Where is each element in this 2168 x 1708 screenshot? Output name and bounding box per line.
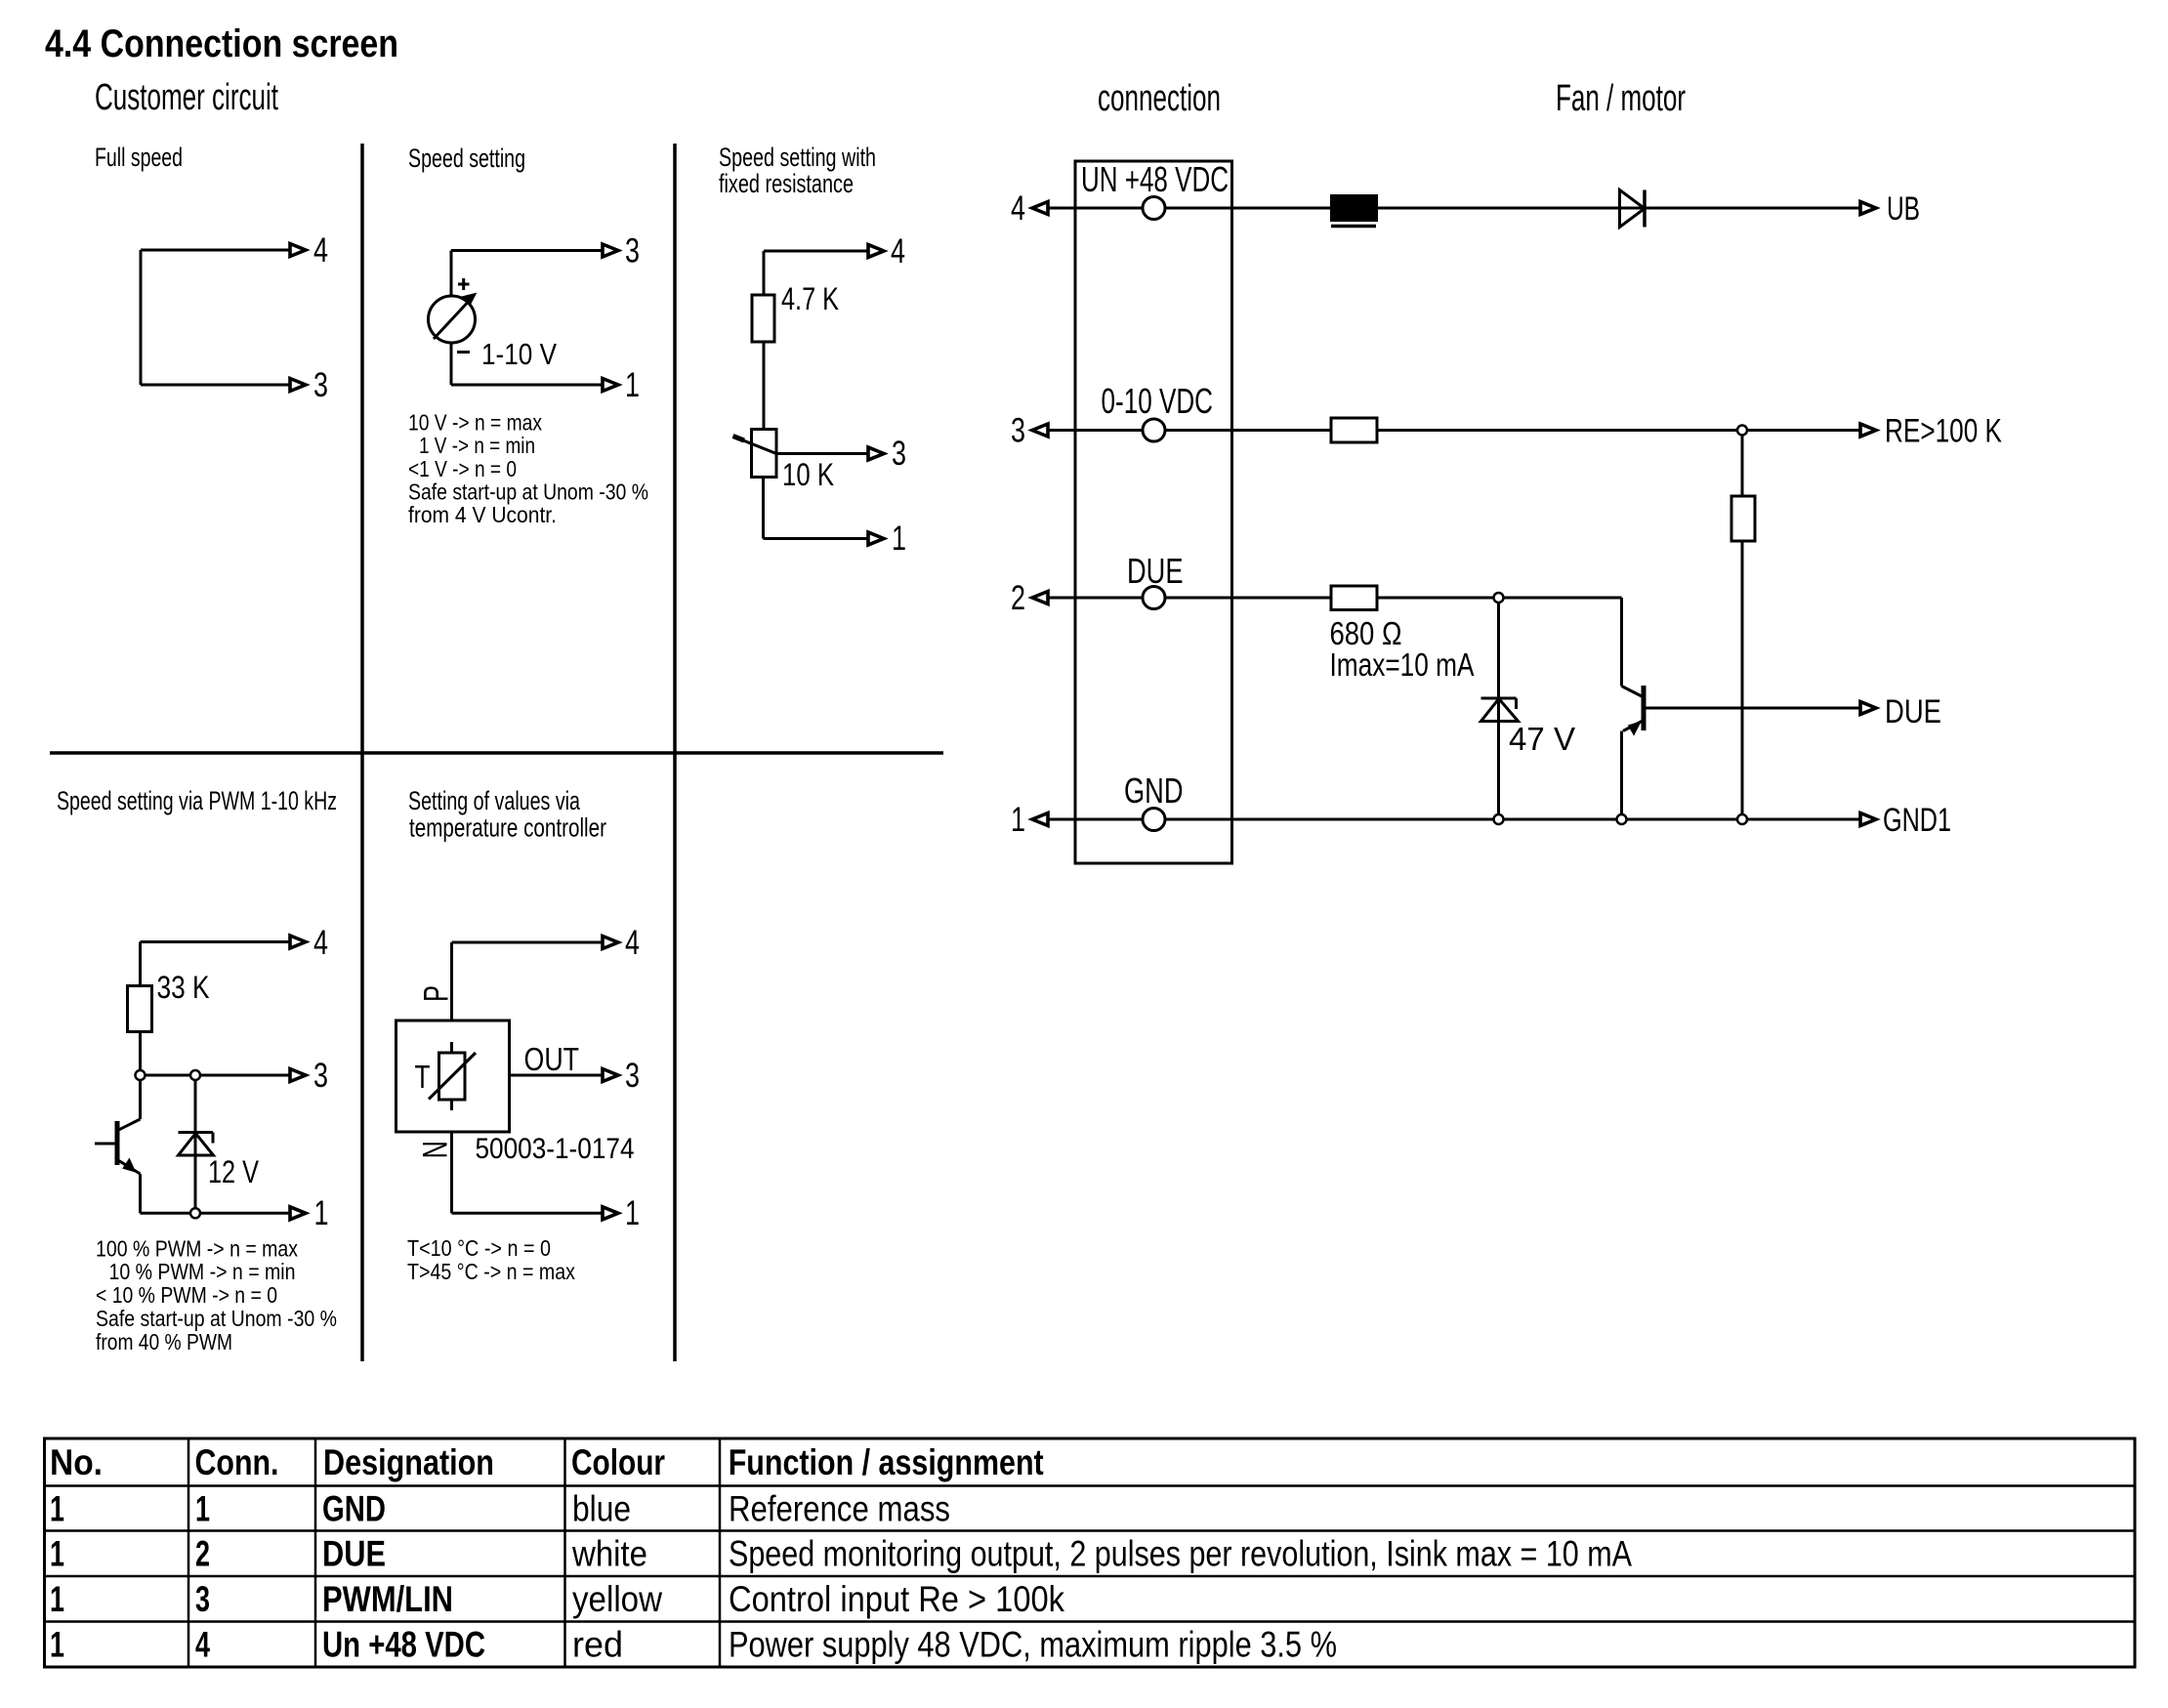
svg-text:RE>100 K: RE>100 K <box>1885 413 2002 450</box>
wire vertical into controller box <box>450 942 453 1021</box>
svg-text:fixed resistance: fixed resistance <box>719 169 854 198</box>
svg-text:red: red <box>572 1625 623 1665</box>
wire pin1 (temp) <box>452 1212 605 1215</box>
pin1 left arrow <box>1032 813 1048 826</box>
fuse / polarity protection symbol <box>1331 195 1377 221</box>
svg-text:N: N <box>417 1141 455 1158</box>
svg-text:Control input Re > 100k: Control input Re > 100k <box>729 1579 1064 1619</box>
wire vertical input-resistor branch <box>1741 431 1744 820</box>
svg-text:Imax=10 mA: Imax=10 mA <box>1330 646 1475 683</box>
transistor Q2 collector lead <box>1622 687 1643 697</box>
table frame <box>45 1438 2136 1667</box>
svg-text:4: 4 <box>313 231 328 270</box>
svg-text:Safe start-up at Unom -30 %: Safe start-up at Unom -30 % <box>96 1306 337 1331</box>
svg-text:2: 2 <box>195 1534 210 1574</box>
svg-text:4: 4 <box>625 924 640 962</box>
svg-text:1: 1 <box>50 1625 64 1665</box>
wire pin3 (speed setting) <box>451 249 604 252</box>
svg-text:No.: No. <box>50 1442 103 1482</box>
wire DUE output row <box>1646 707 1861 710</box>
resistor 4.7 K <box>752 295 774 342</box>
svg-text:Customer circuit: Customer circuit <box>95 77 278 118</box>
wire pin4 (temp) <box>452 941 605 944</box>
svg-text:1: 1 <box>50 1579 64 1619</box>
minus sign <box>457 351 470 354</box>
UB output arrow <box>1860 202 1876 215</box>
connector block box <box>1075 161 1232 863</box>
svg-text:4: 4 <box>891 232 905 271</box>
svg-text:T: T <box>415 1059 431 1095</box>
junction circle node A <box>136 1070 146 1080</box>
potentiometer wiper arrow <box>738 438 776 454</box>
junction circle pin2 node <box>1494 593 1504 603</box>
svg-text:DUE: DUE <box>322 1534 386 1574</box>
svg-text:Speed setting: Speed setting <box>408 144 525 173</box>
svg-text:Speed setting with: Speed setting with <box>719 143 876 172</box>
svg-text:1: 1 <box>1011 801 1025 839</box>
svg-text:3: 3 <box>313 366 328 404</box>
table column line 1 <box>188 1438 190 1667</box>
pin1 contact circle <box>1143 809 1165 831</box>
resistor on control line <box>1331 418 1377 442</box>
svg-text:DUE: DUE <box>1885 693 1941 730</box>
svg-text:P: P <box>418 985 456 1002</box>
svg-text:4: 4 <box>1011 189 1025 228</box>
wire wiper to pin3 <box>776 452 869 455</box>
wire between resistors <box>763 342 766 430</box>
svg-text:< 10 % PWM -> n = 0: < 10 % PWM -> n = 0 <box>96 1282 277 1308</box>
junction circle node B <box>190 1070 200 1080</box>
wire vertical bottom <box>762 478 765 539</box>
svg-text:4.4 Connection screen: 4.4 Connection screen <box>45 22 398 65</box>
transistor Q1 base lead <box>95 1143 115 1146</box>
svg-text:from 4 V Ucontr.: from 4 V Ucontr. <box>408 502 557 527</box>
svg-text:1-10 V: 1-10 V <box>481 337 557 371</box>
table row line 3 <box>45 1620 2136 1623</box>
wire vertical top <box>763 251 766 295</box>
wire pin4 (full speed) <box>141 249 291 252</box>
wire down to transistor collector <box>1620 598 1623 687</box>
svg-text:50003-1-0174: 50003-1-0174 <box>476 1133 635 1165</box>
svg-text:2: 2 <box>1011 579 1025 617</box>
wire emitter to GND row <box>1620 731 1623 820</box>
svg-text:33 K: 33 K <box>157 970 210 1005</box>
svg-text:T<10 °C -> n = 0: T<10 °C -> n = 0 <box>407 1235 551 1261</box>
svg-text:Fan / motor: Fan / motor <box>1556 78 1686 119</box>
svg-text:1: 1 <box>625 366 640 404</box>
svg-text:Designation: Designation <box>323 1442 494 1482</box>
svg-text:T>45 °C -> n = max: T>45 °C -> n = max <box>407 1259 575 1284</box>
svg-text:DUE: DUE <box>1127 551 1184 591</box>
svg-text:PWM/LIN: PWM/LIN <box>322 1579 453 1619</box>
voltage source arrow <box>434 304 467 340</box>
thermistor lead stub bottom <box>450 1100 453 1110</box>
wire pin3 (PWM) <box>141 1074 292 1077</box>
wire pin1 (speed setting) <box>451 384 604 387</box>
wire emitter down <box>139 1174 142 1213</box>
svg-text:3: 3 <box>892 435 906 473</box>
diode D1 <box>1620 190 1646 228</box>
GND1 output arrow <box>1860 813 1876 826</box>
transistor Q1 collector lead <box>118 1119 141 1131</box>
svg-text:3: 3 <box>625 232 640 271</box>
svg-text:3: 3 <box>625 1057 640 1095</box>
junction circle GND x zener <box>1494 814 1504 824</box>
divider horizontal line <box>50 751 943 755</box>
zener diode 12 V <box>179 1131 214 1134</box>
wire pin3 row <box>1048 429 1860 432</box>
wire vertical (full speed) <box>140 250 143 385</box>
svg-text:1: 1 <box>50 1489 64 1529</box>
table column line 3 <box>563 1438 566 1667</box>
wire OUT to pin3 <box>510 1074 605 1077</box>
svg-text:UB: UB <box>1887 190 1920 228</box>
svg-text:4: 4 <box>195 1625 210 1665</box>
svg-text:10 K: 10 K <box>782 457 834 492</box>
transistor Q2 base bar <box>1642 686 1647 730</box>
table row line 2 <box>45 1575 2136 1578</box>
thermistor diagonal <box>429 1053 476 1100</box>
junction circle GND x emitter <box>1617 814 1627 824</box>
junction circle node C <box>190 1208 200 1218</box>
svg-text:Full speed: Full speed <box>95 143 183 172</box>
zener branch wire <box>1497 598 1500 819</box>
divider vertical line 1 <box>360 144 364 1361</box>
svg-text:Speed setting via PWM 1-10 kHz: Speed setting via PWM 1-10 kHz <box>57 786 337 815</box>
svg-text:Setting of values via: Setting of values via <box>408 786 581 815</box>
svg-text:Function / assignment: Function / assignment <box>729 1442 1044 1482</box>
svg-text:0-10 VDC: 0-10 VDC <box>1102 381 1214 421</box>
wire from source - <box>450 343 453 385</box>
svg-text:3: 3 <box>313 1057 328 1095</box>
svg-text:GND1: GND1 <box>1883 802 1951 839</box>
svg-text:3: 3 <box>195 1579 210 1619</box>
svg-text:12 V: 12 V <box>208 1154 260 1189</box>
svg-text:47 V: 47 V <box>1509 721 1575 757</box>
svg-text:blue: blue <box>572 1489 631 1529</box>
wire pin3 (full speed) <box>141 384 291 387</box>
svg-text:100 % PWM -> n = max: 100 % PWM -> n = max <box>96 1236 298 1262</box>
svg-text:yellow: yellow <box>572 1579 662 1619</box>
table column line 4 <box>719 1438 722 1667</box>
svg-text:UN +48 VDC: UN +48 VDC <box>1081 159 1229 199</box>
svg-text:1: 1 <box>50 1534 64 1574</box>
svg-text:4: 4 <box>313 924 328 962</box>
pin4 contact circle <box>1143 197 1165 220</box>
wire resistor to node <box>139 1032 142 1076</box>
svg-text:Speed monitoring output, 2 pul: Speed monitoring output, 2 pulses per re… <box>729 1534 1632 1574</box>
wire pin4 row <box>1048 207 1860 210</box>
pin3 contact circle <box>1143 419 1165 441</box>
svg-text:1: 1 <box>625 1194 640 1232</box>
junction circle on pin3 row <box>1737 426 1747 436</box>
RE output arrow <box>1860 424 1876 437</box>
svg-text:3: 3 <box>1011 412 1025 450</box>
wire pin4 (PWM) <box>141 940 292 943</box>
svg-text:Colour: Colour <box>571 1442 665 1482</box>
table row line 1 <box>45 1529 2136 1532</box>
svg-text:GND: GND <box>322 1489 386 1529</box>
svg-text:1: 1 <box>892 520 906 558</box>
wire vertical below box <box>450 1132 453 1213</box>
voltage source V1 circle <box>429 296 476 343</box>
svg-text:<1 V -> n = 0: <1 V -> n = 0 <box>408 456 517 481</box>
plus sign <box>458 283 470 286</box>
svg-text:Reference mass: Reference mass <box>729 1489 950 1529</box>
table column line 2 <box>314 1438 317 1667</box>
svg-text:1: 1 <box>314 1194 329 1232</box>
svg-text:10 % PWM -> n = min: 10 % PWM -> n = min <box>109 1259 296 1284</box>
transistor Q1 base bar <box>115 1121 120 1165</box>
pin2 left arrow <box>1032 592 1048 604</box>
wire node to transistor collector <box>139 1075 142 1119</box>
temperature controller box U1 <box>396 1021 510 1132</box>
svg-text:Conn.: Conn. <box>195 1442 279 1482</box>
zener diode 47 V <box>1481 697 1517 700</box>
junction circle GND x RE branch <box>1737 814 1747 824</box>
svg-text:temperature controller: temperature controller <box>409 813 606 843</box>
svg-text:GND: GND <box>1124 771 1184 811</box>
wire pin2 row <box>1048 597 1622 600</box>
potentiometer 10 K body <box>752 430 777 478</box>
wire pin4 (fixed resistance) <box>764 250 869 253</box>
wire pin1 GND row <box>1048 818 1860 821</box>
svg-text:4.7 K: 4.7 K <box>781 281 839 316</box>
svg-text:from 40 % PWM: from 40 % PWM <box>96 1329 232 1354</box>
svg-text:Safe start-up at Unom -30 %: Safe start-up at Unom -30 % <box>408 479 648 505</box>
table header separator <box>45 1484 2136 1487</box>
transistor Q1 emitter lead with arrow <box>117 1160 141 1175</box>
divider vertical line 2 <box>673 144 677 1361</box>
wire pin1 (PWM) <box>141 1212 292 1215</box>
svg-text:1 V -> n = min: 1 V -> n = min <box>419 433 535 458</box>
svg-text:Power supply 48 VDC, maximum r: Power supply 48 VDC, maximum ripple 3.5 … <box>729 1625 1337 1665</box>
svg-text:connection: connection <box>1098 78 1221 119</box>
resistor 680 Ohm <box>1331 586 1377 610</box>
svg-text:10 V -> n = max: 10 V -> n = max <box>408 410 542 436</box>
svg-text:OUT: OUT <box>524 1041 580 1077</box>
transistor Q2 emitter lead with arrow <box>1623 721 1644 731</box>
thermistor RT1 body <box>439 1053 466 1100</box>
wire vertical to resistor <box>139 942 142 986</box>
pin3 left arrow <box>1032 424 1048 437</box>
svg-text:white: white <box>571 1534 647 1574</box>
wire pin1 (fixed resistance) <box>764 537 870 540</box>
resistor 33 K <box>128 986 152 1032</box>
resistor RE body <box>1731 496 1755 541</box>
DUE output arrow <box>1860 702 1876 715</box>
pin2 contact circle <box>1143 587 1165 609</box>
pin4 left arrow <box>1032 202 1048 215</box>
svg-text:Un +48 VDC: Un +48 VDC <box>322 1625 485 1665</box>
svg-text:1: 1 <box>195 1489 210 1529</box>
thermistor lead stub top <box>450 1042 453 1053</box>
wire zener branch vertical <box>194 1075 197 1213</box>
wire to source + <box>450 251 453 297</box>
